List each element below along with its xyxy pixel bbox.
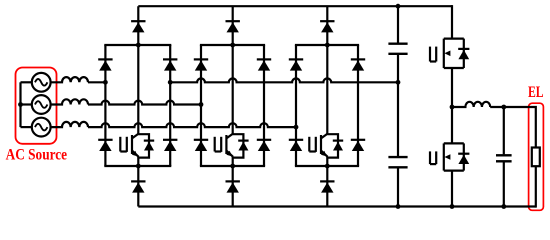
diode D22 (upper right)	[257, 59, 271, 70]
wire: IGBT Q1 gate stub	[119, 137, 121, 152]
junction: bridge1 right leg node	[168, 80, 173, 85]
top series diode D1t	[131, 21, 145, 32]
wire: Q1 antiparallel-diode branch	[138, 134, 149, 157]
bottom series diode D3b	[320, 181, 334, 192]
svg-text:AC Source: AC Source	[6, 147, 68, 164]
S2 gate bar	[435, 151, 437, 164]
S1 gate bar	[435, 47, 437, 62]
diode D23 (lower left)	[194, 140, 208, 151]
wire: bridge3 series leg (top)	[326, 6, 328, 134]
wire: bridge1 series leg (bottom)	[137, 157, 139, 207]
diode D32 (upper right)	[351, 59, 365, 70]
junction: half-bridge midpoint	[450, 105, 455, 110]
wire: bridge2 bottom bar	[200, 165, 265, 167]
IGBT Q3 collector lead	[321, 134, 328, 139]
capacitor Cd2	[388, 157, 407, 167]
label: EL	[528, 84, 544, 101]
body diode of S2	[458, 154, 469, 164]
wire: output cap upper lead	[503, 107, 505, 154]
junction: phase A - bridge1 left leg	[103, 80, 108, 85]
bottom series diode D2b	[226, 181, 240, 192]
bottom series diode D1b	[131, 181, 145, 192]
wire: negative DC rail	[138, 205, 536, 207]
AC source Va	[32, 73, 51, 92]
diode D14 (lower right)	[163, 140, 177, 151]
wire: IGBT Q3 gate lead	[309, 150, 316, 152]
wire: IGBT Q2 gate stub	[214, 137, 216, 152]
wire: bridge3 bottom bar	[295, 165, 359, 167]
wire: S2 source bracket	[444, 170, 464, 172]
junction: bridge2 top bar - center leg	[230, 43, 235, 48]
MOSFET S2 body bar	[443, 143, 445, 170]
wire: S1 body-diode leg	[463, 39, 465, 68]
junction: output cap top node	[501, 105, 506, 110]
wire: bridge2 right leg	[263, 45, 265, 166]
wire: S1 source bracket	[444, 67, 464, 69]
wire: positive rail to S1 drain	[451, 5, 453, 39]
diode D34 (lower right)	[351, 140, 365, 151]
diode D24 (lower right)	[257, 140, 271, 151]
junction: split-cap leg - positive rail	[396, 4, 401, 9]
antiparallel diode of Q3	[333, 141, 343, 151]
inductor Lc	[51, 122, 88, 127]
wire: positive DC rail	[138, 5, 452, 7]
diode D31 (upper left)	[289, 59, 303, 70]
junction: phase B - bridge2 left leg	[199, 102, 204, 107]
wire: bridge3 top bar	[295, 44, 359, 46]
wire: Q3 antiparallel-diode branch	[327, 134, 338, 157]
wire: bridge2 series leg (bottom)	[232, 157, 234, 207]
wire: Lo to EL load	[490, 107, 536, 148]
wire: S1 drain bracket	[444, 37, 464, 39]
wire: output cap lower lead	[503, 162, 505, 206]
junction: neutral bus node	[18, 102, 23, 107]
junction: phase C - bridge3 left leg	[294, 125, 299, 130]
wire: S2 gate stub	[429, 151, 431, 164]
wire: bridge3 left leg	[295, 45, 297, 166]
wire: bridge2 top bar	[200, 44, 265, 46]
AC source Vc	[32, 118, 51, 137]
IGBT Q1 channel bar	[131, 135, 133, 154]
junction: bridge3 top bar - center leg	[325, 43, 330, 48]
top series diode D3t	[320, 21, 334, 32]
junction: bridge2 bottom bar - center leg	[230, 164, 235, 169]
resistor R (electrolyzer)	[532, 148, 540, 167]
capacitor Co	[496, 155, 512, 161]
IGBT Q1 gate bar	[126, 137, 128, 152]
body diode of S1	[458, 49, 469, 59]
IGBT Q3 emitter arrow	[321, 151, 327, 157]
inductor Lb	[51, 99, 88, 104]
wire: S2 drain bracket	[444, 142, 464, 144]
wire: bridge right-legs to DC midpoint (hops over legs)	[170, 78, 398, 82]
wire: bridge1 top bar	[104, 44, 171, 46]
wire: IGBT Q1 gate lead	[120, 150, 127, 152]
IGBT Q2 channel bar	[225, 135, 227, 154]
diode D21 (upper left)	[194, 59, 208, 70]
diode D11 (upper left)	[98, 59, 112, 70]
junction: split-cap leg - negative rail	[396, 204, 401, 209]
IGBT Q2 emitter arrow	[226, 151, 232, 157]
junction: output cap - negative rail	[501, 204, 506, 209]
diode D13 (lower left)	[98, 140, 112, 151]
wire: S2 body-diode leg	[463, 143, 465, 170]
diode D33 (lower left)	[289, 140, 303, 151]
wire: split-cap leg middle	[397, 55, 399, 157]
wire: bridge2 series leg (top)	[232, 6, 234, 134]
wire: bridge2 left leg	[200, 45, 202, 166]
MOSFET S1 body bar	[443, 39, 445, 68]
wire: Vc left lead	[21, 126, 32, 128]
AC source enclosure (red box)	[16, 68, 57, 144]
wire: bridge1 series leg (top)	[137, 6, 139, 134]
EL load enclosure (red box)	[529, 103, 544, 210]
label: AC Source	[6, 147, 68, 164]
wire: Va left lead	[21, 81, 32, 83]
wire: bridge1 bottom bar	[104, 165, 171, 167]
junction: S2 source - negative rail	[450, 204, 455, 209]
svg-text:EL: EL	[528, 84, 544, 101]
antiparallel diode of Q1	[144, 141, 154, 151]
wire: phase C to bridge3 (hops over bridge1,2 legs)	[88, 123, 296, 127]
IGBT Q1 emitter lead	[132, 151, 139, 157]
wire: split-cap leg upper	[397, 6, 399, 43]
wire: bridge3 series leg (bottom)	[326, 157, 328, 207]
wire: phase A to bridge1	[88, 81, 105, 83]
IGBT Q3 gate bar	[315, 137, 317, 152]
IGBT Q1 collector lead	[132, 134, 139, 139]
wire: IGBT Q3 gate stub	[308, 137, 310, 152]
wire: bridge1 left leg	[104, 45, 106, 166]
AC source Vb	[32, 95, 51, 114]
wire: S1 gate stub	[429, 47, 431, 62]
IGBT Q1 emitter arrow	[132, 151, 138, 157]
wire: bridge3 right leg	[357, 45, 359, 166]
junction: bridge1 bottom bar - center leg	[136, 164, 141, 169]
wire: Q2 antiparallel-diode branch	[233, 134, 244, 157]
capacitor Cd1	[388, 44, 407, 54]
wire: S2 gate lead	[430, 163, 436, 165]
wire: EL load bottom lead	[535, 166, 537, 207]
junction: DC midpoint node	[396, 80, 401, 85]
wire: S1 gate lead	[430, 60, 436, 62]
IGBT Q3 channel bar	[320, 135, 322, 154]
wire: bridge1 right leg	[169, 45, 171, 166]
wire: Vb left lead	[21, 103, 32, 105]
S2 channel arrow	[444, 154, 450, 160]
junction: bridge1 top bar - center leg	[136, 43, 141, 48]
wire: source neutral bus	[19, 82, 21, 127]
diode D12 (upper right)	[163, 59, 177, 70]
junction: bridge3 bottom bar - center leg	[325, 164, 330, 169]
antiparallel diode of Q2	[238, 141, 248, 151]
top series diode D2t	[226, 21, 240, 32]
wire: S1 source to S2 drain	[451, 68, 453, 143]
wire: split-cap leg lower	[397, 168, 399, 206]
wire: phase B to bridge2 (hops over bridge1 legs)	[88, 101, 201, 105]
S1 channel arrow	[444, 51, 450, 57]
IGBT Q2 gate bar	[220, 137, 222, 152]
IGBT Q2 emitter lead	[226, 151, 233, 157]
inductor La	[51, 77, 88, 82]
IGBT Q2 collector lead	[226, 134, 233, 139]
wire: IGBT Q2 gate lead	[215, 150, 222, 152]
inductor Lo	[452, 102, 490, 107]
wire: S2 source to negative rail	[451, 171, 453, 207]
IGBT Q3 emitter lead	[321, 151, 328, 157]
